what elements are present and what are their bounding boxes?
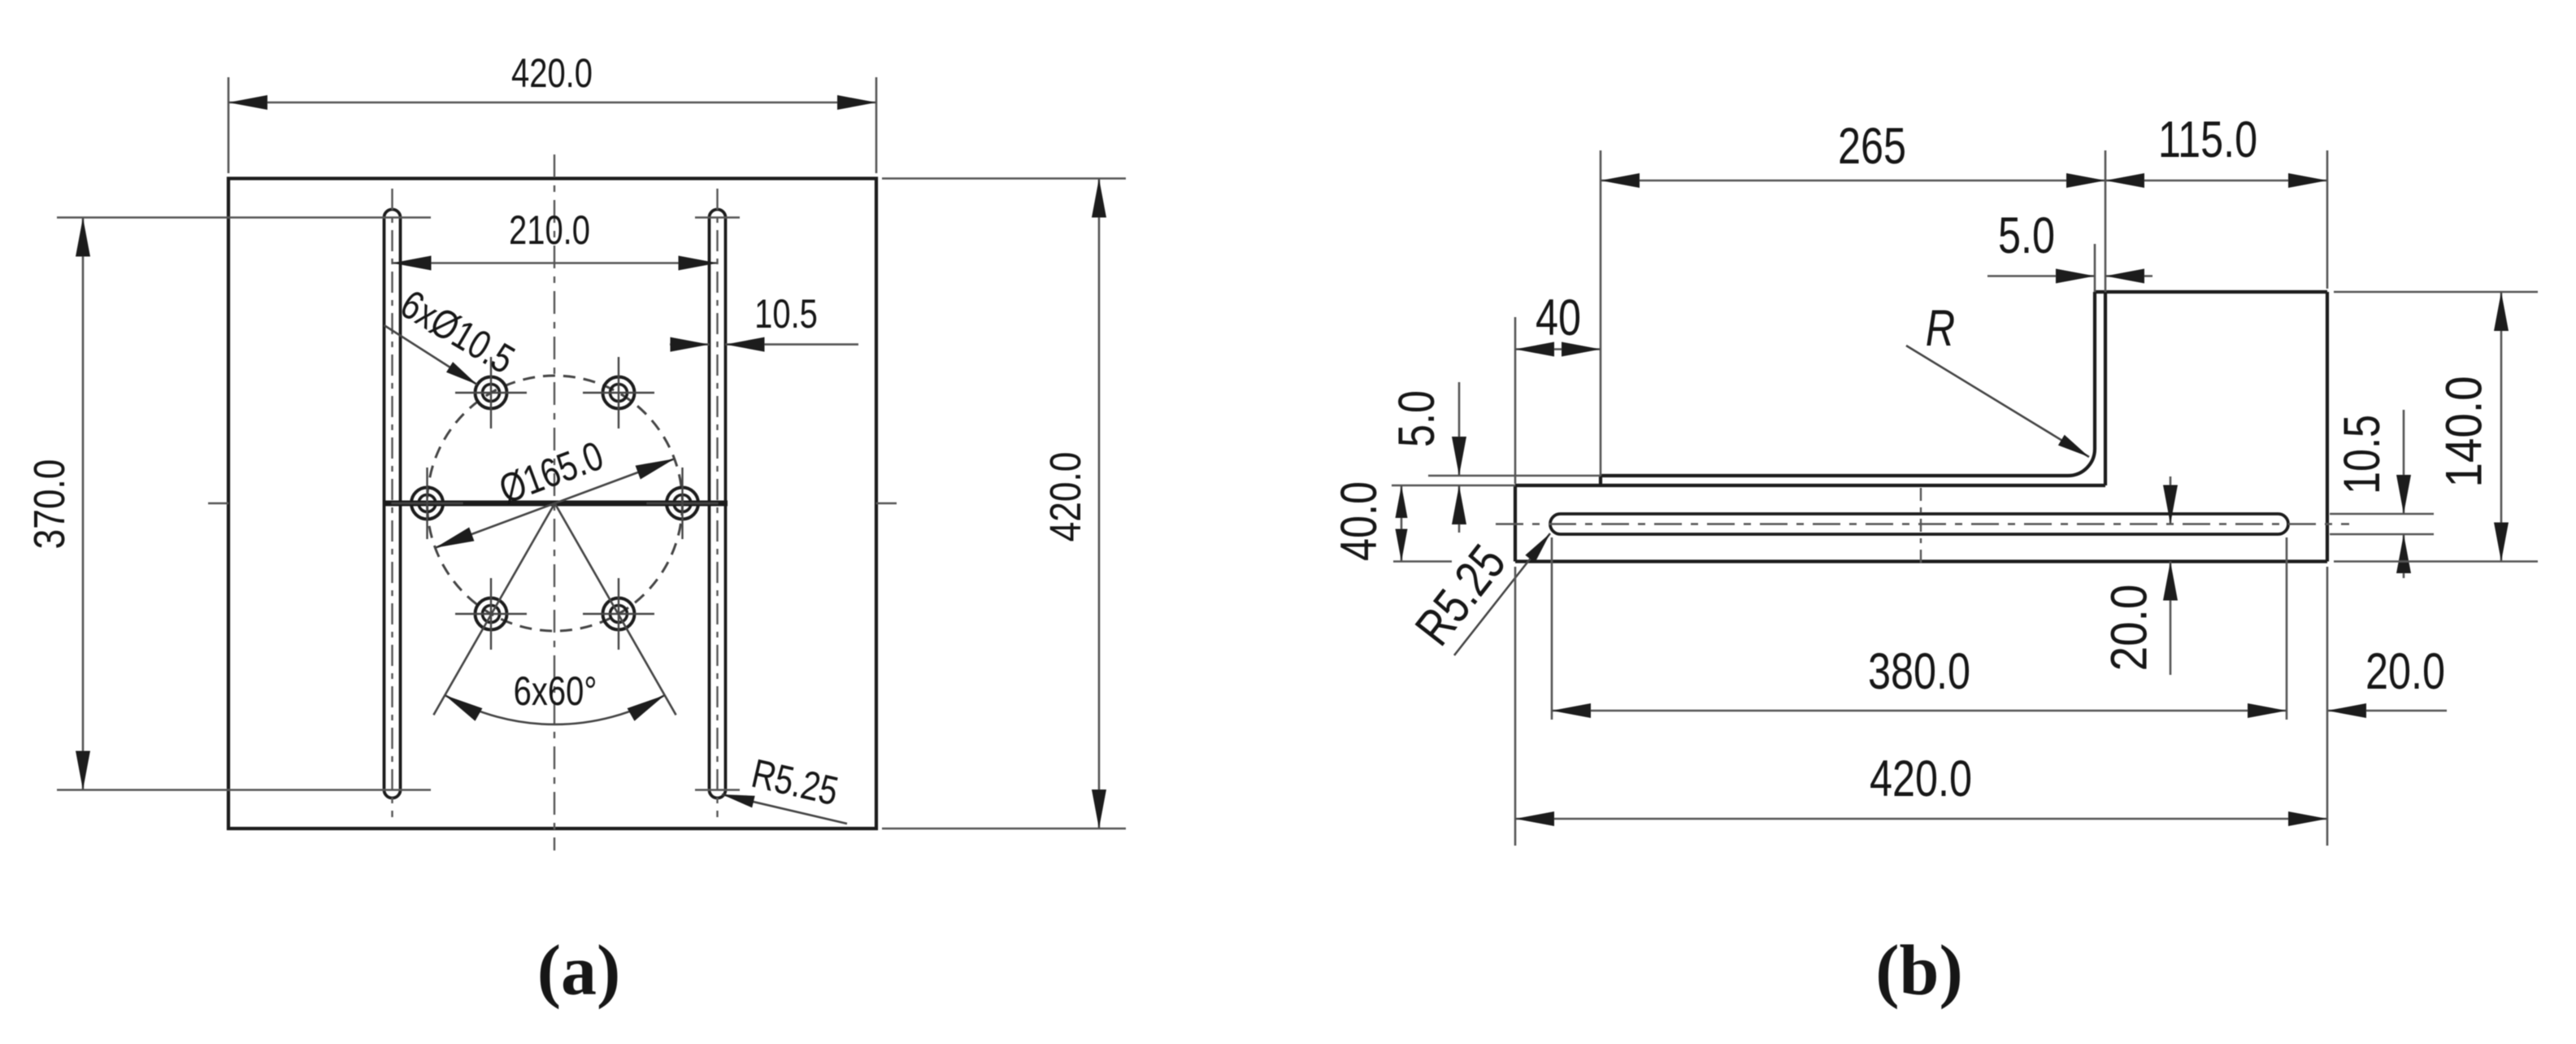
svg-text:10.5: 10.5: [2334, 415, 2391, 494]
svg-text:265: 265: [1838, 118, 1906, 176]
svg-text:(b): (b): [1875, 932, 1963, 1011]
svg-text:115.0: 115.0: [2158, 111, 2257, 169]
svg-text:210.0: 210.0: [509, 207, 590, 253]
svg-text:R: R: [1926, 300, 1955, 358]
svg-text:420.0: 420.0: [511, 50, 593, 96]
svg-text:5.0: 5.0: [1388, 390, 1446, 447]
svg-text:5.0: 5.0: [1998, 207, 2055, 265]
svg-text:140.0: 140.0: [2435, 376, 2492, 487]
svg-text:6x60°: 6x60°: [514, 668, 597, 714]
svg-text:20.0: 20.0: [2100, 585, 2157, 672]
svg-text:40: 40: [1536, 289, 1581, 347]
svg-text:40.0: 40.0: [1331, 481, 1388, 561]
svg-text:10.5: 10.5: [754, 291, 818, 337]
svg-text:420.0: 420.0: [1041, 452, 1090, 542]
svg-text:380.0: 380.0: [1868, 643, 1970, 701]
svg-text:20.0: 20.0: [2365, 643, 2445, 701]
svg-text:420.0: 420.0: [1870, 750, 1972, 808]
svg-text:370.0: 370.0: [25, 459, 74, 550]
svg-text:(a): (a): [537, 932, 621, 1011]
